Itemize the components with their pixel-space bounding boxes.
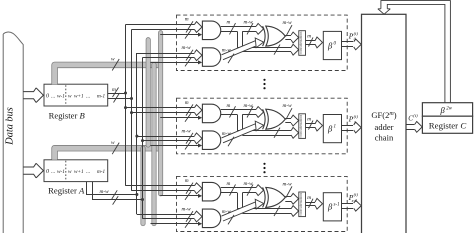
junction V2b-block2 bbox=[141, 139, 144, 142]
svg-text:Data bus: Data bus bbox=[5, 107, 16, 145]
register C bbox=[422, 116, 472, 133]
GF(2^m) adder chain box bbox=[362, 14, 407, 236]
concatenation box bbox=[298, 192, 305, 217]
wire AND1 digit input bbox=[160, 30, 202, 38]
svg-text:...: ... bbox=[86, 93, 91, 99]
bus arrow to Register A bbox=[23, 163, 43, 178]
wire m-w line2 from Register A bbox=[93, 182, 143, 200]
AND gate 1 bbox=[202, 21, 220, 39]
data bus bbox=[3, 32, 23, 234]
svg-text:m-1: m-1 bbox=[97, 169, 105, 175]
svg-text:m: m bbox=[185, 178, 189, 184]
wire AND2 input bus bbox=[137, 45, 202, 60]
beta^s-1 multiplier box bbox=[323, 193, 341, 221]
svg-text:m-w: m-w bbox=[222, 131, 232, 137]
m-w label on Register A output bbox=[100, 189, 119, 204]
svg-text:w+1: w+1 bbox=[74, 93, 84, 99]
svg-text:m-w: m-w bbox=[100, 189, 110, 195]
beta^2w box bbox=[422, 103, 472, 117]
wire bypass bus (low w bits) bbox=[237, 31, 298, 55]
wire AND1 input bus bbox=[126, 100, 203, 116]
wire AND2 digit input bbox=[151, 219, 203, 228]
svg-text:(t): (t) bbox=[354, 114, 359, 119]
junction V1b-block2 bbox=[130, 111, 133, 114]
wire AND1 digit input bbox=[160, 191, 202, 200]
svg-text:...: ... bbox=[51, 93, 56, 99]
junction V1a-block2 bbox=[124, 106, 127, 109]
processing block 1 bbox=[126, 98, 362, 154]
svg-text:m: m bbox=[307, 117, 311, 123]
svg-text:0: 0 bbox=[46, 169, 49, 175]
gray w-bus from Register A bbox=[55, 148, 161, 160]
svg-text:concatenation: concatenation bbox=[298, 193, 303, 216]
junction V1a-RegB bbox=[124, 92, 127, 95]
wire P output to adder chain bbox=[342, 200, 362, 211]
beta^0 multiplier box bbox=[323, 31, 341, 59]
gray vertical bus g2 bbox=[146, 40, 151, 145]
svg-text:β: β bbox=[327, 124, 333, 134]
wire AND1 output bus bbox=[221, 103, 264, 118]
wire AND2 digit input bbox=[151, 58, 203, 67]
wire AND1 input bus bbox=[126, 178, 203, 194]
svg-text:(t): (t) bbox=[413, 113, 418, 118]
svg-text:concatenation: concatenation bbox=[298, 115, 303, 138]
register A bbox=[44, 160, 108, 196]
wire AND2 input bus bbox=[137, 128, 202, 143]
wire AND2 digit input bbox=[151, 141, 203, 150]
feedback bus wire bbox=[378, 1, 451, 103]
wire m-bus line2 from Register B bbox=[108, 98, 132, 100]
processing block s-1 bbox=[126, 176, 362, 231]
svg-text:Register A: Register A bbox=[48, 186, 85, 196]
svg-text:m-w: m-w bbox=[222, 209, 232, 215]
wire AND2 input bus bbox=[137, 207, 202, 222]
XOR gate bbox=[263, 26, 286, 46]
wire m-w line1 from Register A bbox=[87, 182, 137, 195]
wire AND1 input bus bbox=[126, 17, 203, 33]
m label on Register B output bbox=[112, 87, 120, 103]
dashed PE block boundary bbox=[177, 176, 348, 231]
svg-text:chain: chain bbox=[375, 133, 394, 143]
label P1 bbox=[348, 114, 359, 125]
svg-text:w: w bbox=[111, 57, 115, 63]
svg-text:m: m bbox=[185, 100, 189, 106]
wire concatenation output bbox=[306, 117, 323, 131]
svg-text:m-w: m-w bbox=[182, 207, 192, 213]
ellipsis between blocks 2-3 bbox=[263, 163, 265, 174]
svg-text:...: ... bbox=[51, 169, 56, 175]
wire bypass bus (low w bits) bbox=[237, 193, 298, 217]
wire concatenation output bbox=[306, 195, 323, 209]
wire m-bus line1 from Register B bbox=[108, 93, 126, 95]
svg-text:GF(2m): GF(2m) bbox=[371, 110, 396, 120]
svg-text:s-1: s-1 bbox=[352, 198, 358, 203]
svg-text:w: w bbox=[68, 169, 72, 175]
beta^1 multiplier box bbox=[323, 115, 341, 143]
svg-text:w-1: w-1 bbox=[57, 93, 65, 99]
AND gate 1 bbox=[202, 182, 220, 201]
svg-text:m-w: m-w bbox=[283, 103, 293, 109]
svg-text:β: β bbox=[327, 40, 333, 50]
concatenation box bbox=[298, 31, 305, 56]
junction V2b-RegA bbox=[141, 198, 144, 201]
wire XOR output bus bbox=[283, 20, 299, 43]
svg-text:m-1: m-1 bbox=[97, 93, 105, 99]
svg-text:2w: 2w bbox=[446, 107, 453, 112]
svg-text:m-w: m-w bbox=[182, 45, 192, 51]
svg-text:m: m bbox=[307, 195, 311, 201]
label P0 bbox=[348, 31, 359, 42]
svg-text:β: β bbox=[440, 105, 446, 115]
vertical wire V2b bbox=[142, 58, 144, 219]
gray vertical bus g1 bbox=[141, 148, 146, 223]
wire bypass bus (low w bits) bbox=[237, 115, 298, 139]
svg-text:1: 1 bbox=[354, 120, 356, 125]
svg-text:m: m bbox=[307, 34, 311, 40]
wire AND1 output bus bbox=[221, 181, 264, 196]
svg-text:(t): (t) bbox=[354, 31, 359, 36]
junction V1b-RegB bbox=[130, 97, 133, 100]
vertical wire V1b bbox=[131, 30, 133, 191]
svg-text:1: 1 bbox=[334, 125, 337, 130]
svg-text:0: 0 bbox=[46, 93, 49, 99]
svg-text:w+1: w+1 bbox=[74, 169, 84, 175]
AND gate 2 bbox=[202, 209, 220, 228]
svg-text:w: w bbox=[111, 140, 115, 146]
w label on Register B bus bbox=[111, 57, 119, 71]
svg-text:β: β bbox=[327, 202, 333, 212]
wire XOR output bus bbox=[283, 103, 299, 126]
svg-text:m: m bbox=[227, 103, 231, 109]
svg-text:m-w: m-w bbox=[222, 48, 232, 54]
XOR gate bbox=[263, 187, 286, 207]
label Ps-1 bbox=[348, 192, 359, 203]
XOR gate bbox=[263, 109, 286, 129]
svg-text:m-w: m-w bbox=[182, 128, 192, 134]
junction V2a-block2 bbox=[135, 135, 138, 138]
svg-text:m-w: m-w bbox=[283, 181, 293, 187]
svg-text:adder: adder bbox=[375, 122, 394, 132]
AND gate 1 bbox=[202, 104, 220, 123]
w label on Register A bus bbox=[111, 140, 119, 154]
concatenation box bbox=[298, 114, 305, 139]
svg-text:m: m bbox=[185, 17, 189, 23]
AND gate 2 bbox=[202, 48, 220, 67]
wire concatenation output bbox=[306, 34, 323, 48]
svg-text:s-1: s-1 bbox=[334, 203, 340, 208]
wire P output to adder chain bbox=[342, 39, 362, 50]
wire AND2 output diagonal bus bbox=[222, 199, 264, 224]
wire AND2 output diagonal bus bbox=[222, 38, 264, 63]
wire AND1 output bus bbox=[221, 20, 264, 35]
vertical wire V2a bbox=[136, 53, 138, 214]
svg-text:w: w bbox=[68, 93, 72, 99]
AND gate 2 bbox=[202, 131, 220, 150]
svg-text:...: ... bbox=[86, 169, 91, 175]
gray w-bus from Register B bbox=[55, 65, 162, 84]
svg-text:m: m bbox=[227, 181, 231, 187]
svg-text:Register C: Register C bbox=[429, 120, 467, 130]
svg-text:(t): (t) bbox=[354, 192, 359, 197]
dashed PE block boundary bbox=[177, 15, 348, 70]
wire AND1 digit input bbox=[160, 113, 202, 122]
svg-text:concatenation: concatenation bbox=[298, 32, 303, 55]
wire P output to adder chain bbox=[342, 122, 362, 133]
ellipsis between blocks 1-2 bbox=[263, 79, 265, 90]
svg-text:Register B: Register B bbox=[49, 110, 86, 120]
bus arrow to Register B bbox=[23, 88, 43, 103]
svg-text:m: m bbox=[227, 20, 231, 26]
svg-text:m-w: m-w bbox=[283, 20, 293, 26]
vertical wire V1a bbox=[125, 25, 127, 186]
dashed PE block boundary bbox=[177, 98, 348, 154]
junction V2a-RegA bbox=[135, 193, 138, 196]
gray vertical bus g3 bbox=[152, 65, 157, 224]
wire AND2 output diagonal bus bbox=[222, 121, 264, 146]
register B bbox=[44, 84, 108, 120]
svg-text:w-1: w-1 bbox=[57, 169, 65, 175]
processing block 0 bbox=[126, 15, 362, 70]
wire C output to Register C bbox=[406, 113, 422, 132]
gray vertical bus g4 bbox=[158, 33, 163, 194]
wire XOR output bus bbox=[283, 181, 299, 204]
